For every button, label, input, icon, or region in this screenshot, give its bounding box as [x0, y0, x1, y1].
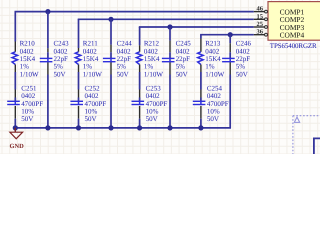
junction node bus col1	[13, 125, 18, 130]
wire COMP2 horizontal net	[78, 18, 254, 20]
wire C245 to bus	[169, 75, 171, 128]
wire R211 branch vertical	[78, 19, 80, 48]
wire at C252 plates	[78, 98, 80, 102]
pin 2 of R211	[78, 65, 80, 73]
wire C253 to bus	[139, 119, 141, 128]
svg-text:TPS65400RGZR: TPS65400RGZR	[270, 42, 317, 50]
pin 1 of C245	[169, 41, 171, 53]
wire COMP4 horizontal net	[200, 34, 254, 36]
capacitor C244 22pF plates	[103, 57, 116, 59]
resistor R211 15K4	[75, 52, 81, 65]
capacitor C254 4700PF plates	[193, 100, 206, 102]
resistor R212 15K4	[136, 52, 142, 65]
wire C246 branch vertical	[229, 35, 231, 44]
pin 1 of R210	[14, 42, 16, 52]
wire C246 to bus	[229, 75, 231, 128]
pin 2 of C246	[229, 62, 231, 74]
junction node bus col4	[108, 125, 113, 130]
capacitor C253 4700PF plates	[132, 100, 145, 102]
dashed region border	[292, 116, 294, 154]
wire at C246 plates	[229, 52, 231, 58]
pin 2 of C245	[169, 62, 171, 74]
collapse triangle marker	[294, 117, 299, 122]
wire C244 to bus	[110, 75, 112, 128]
pin 1 of C254	[200, 90, 202, 98]
pin 15 COMP2	[254, 18, 265, 20]
svg-text:50V: 50V	[207, 115, 219, 123]
wire COMP3 horizontal net	[139, 26, 254, 28]
svg-text:50V: 50V	[85, 115, 97, 123]
wire R212 to C253	[139, 72, 141, 90]
junction node bus col3	[76, 125, 81, 130]
svg-text:1/10W: 1/10W	[205, 70, 224, 78]
wire COMP1 horizontal net	[15, 11, 254, 13]
pin 2 of R213	[200, 65, 202, 73]
svg-text:46: 46	[257, 6, 264, 13]
svg-text:1/10W: 1/10W	[144, 70, 163, 78]
svg-text:25: 25	[257, 21, 264, 28]
capacitor C245 22pF plates	[162, 57, 175, 59]
resistor R210 15K4	[12, 52, 17, 65]
wire R212 branch vertical	[139, 27, 141, 45]
pin 2 of C244	[110, 62, 112, 74]
svg-text:36: 36	[257, 29, 264, 36]
svg-text:15: 15	[257, 13, 264, 20]
wire R213 branch vertical	[200, 35, 202, 39]
svg-text:50V: 50V	[146, 115, 158, 123]
pin 1 of R213	[200, 39, 202, 52]
junction node COMP4	[228, 32, 233, 37]
pin 2 of C254	[200, 106, 202, 119]
wire at C243 plates	[47, 52, 49, 58]
wire GND bottom bus	[15, 127, 232, 129]
pin 46 COMP1	[254, 11, 265, 13]
wire R211 to C252	[78, 72, 80, 90]
svg-text:50V: 50V	[176, 70, 188, 78]
wire R210 to C251	[14, 72, 16, 90]
pin 2 of C252	[78, 106, 80, 119]
pin 1 of C252	[78, 90, 80, 98]
wire C245 branch vertical	[169, 27, 171, 41]
wire C243 branch vertical	[47, 12, 49, 49]
junction node bus col2	[45, 125, 50, 130]
svg-text:50V: 50V	[236, 70, 248, 78]
wire C252 to bus	[78, 119, 80, 128]
wire C254 to bus	[200, 119, 202, 128]
svg-text:COMP4: COMP4	[280, 31, 305, 40]
junction node COMP2	[108, 17, 113, 22]
pin 1 of C251	[14, 90, 16, 98]
svg-text:1/10W: 1/10W	[20, 70, 39, 78]
junction node COMP1	[45, 9, 50, 14]
IC TPS65400RGZR body	[268, 2, 320, 41]
pin 2 of C253	[139, 106, 141, 119]
junction node bus col7	[198, 125, 203, 130]
junction node bus col5	[137, 125, 142, 130]
capacitor C252 4700PF plates	[70, 100, 83, 102]
junction node bus col6	[167, 125, 172, 130]
wire at C245 plates	[169, 52, 171, 58]
pin 1 of C253	[139, 90, 141, 98]
svg-text:50V: 50V	[117, 70, 129, 78]
junction node COMP3	[167, 24, 172, 29]
wire C251 to bus	[14, 119, 16, 128]
ground GND power port	[14, 128, 16, 132]
pin 2 of C251	[14, 106, 16, 119]
capacitor C243 22pF plates	[40, 57, 53, 59]
wire at C253 plates	[139, 98, 141, 102]
pin 1 of R212	[139, 45, 141, 52]
wire C243 to bus	[47, 75, 49, 128]
svg-text:1/10W: 1/10W	[83, 70, 102, 78]
capacitor C246 22pF plates	[222, 57, 235, 59]
pin 25 COMP3	[254, 26, 265, 28]
pin 1 of R211	[78, 48, 80, 52]
wire at C254 plates	[200, 98, 202, 102]
capacitor C251 4700PF plates	[7, 100, 20, 102]
pin 1 of C246	[229, 43, 231, 52]
pin 2 of C243	[47, 62, 49, 74]
wire at C244 plates	[110, 52, 112, 58]
pin 2 of R210	[14, 65, 16, 73]
wire at C251 plates	[14, 98, 16, 102]
svg-text:50V: 50V	[21, 115, 33, 123]
pin 1 of C244	[110, 45, 112, 53]
resistor R213 15K4	[198, 52, 204, 65]
wire R210 branch vertical	[14, 12, 16, 42]
svg-text:50V: 50V	[54, 70, 66, 78]
svg-text:GND: GND	[9, 143, 24, 150]
pin 2 of R212	[139, 65, 141, 73]
wire corner bottom right	[314, 138, 320, 154]
pin 36 COMP4	[254, 34, 265, 36]
pin 1 of C243	[47, 48, 49, 52]
wire C244 branch vertical	[110, 19, 112, 44]
wire R213 to C254	[200, 72, 202, 90]
